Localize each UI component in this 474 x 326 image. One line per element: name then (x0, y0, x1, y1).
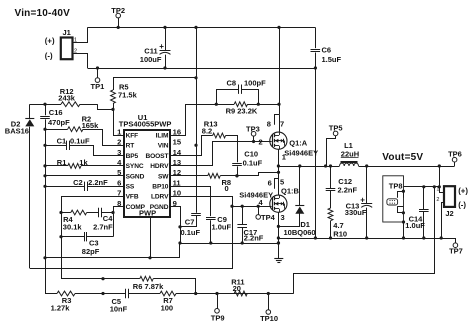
testpoint TP4 (256, 215, 261, 220)
wire SGND to pin5 (45, 175, 124, 177)
svg-text:15: 15 (173, 138, 182, 147)
svg-text:22uH: 22uH (341, 149, 359, 158)
svg-text:71.5k: 71.5k (118, 91, 138, 100)
svg-text:VFB: VFB (126, 194, 139, 201)
svg-text:8.2: 8.2 (202, 126, 212, 135)
wire Q1A drain pins 7 8 (275, 115, 280, 125)
svg-text:100uF: 100uF (140, 55, 162, 64)
wire TP8 to GND (403, 222, 405, 238)
svg-text:20: 20 (233, 284, 241, 293)
diode D1 10BQ060 (299, 166, 301, 206)
resistor R2 (45, 129, 68, 131)
capacitor C9 (170, 187, 211, 217)
wire ILIM riser (170, 105, 216, 136)
svg-text:COMP: COMP (126, 204, 146, 211)
svg-text:TP8: TP8 (389, 181, 403, 190)
testpoint TP1 (95, 78, 100, 83)
svg-text:J2: J2 (445, 209, 453, 218)
svg-text:TP3: TP3 (246, 124, 260, 133)
svg-text:TP1: TP1 (91, 82, 105, 91)
wire Q1B source (278, 212, 280, 258)
svg-text:1.0uF: 1.0uF (405, 221, 425, 230)
svg-text:2.2nF: 2.2nF (338, 186, 358, 195)
svg-text:+: + (159, 42, 164, 51)
resistor R13 (213, 133, 226, 138)
svg-text:SS: SS (126, 184, 135, 191)
wire HDRV to gate (170, 142, 272, 166)
testpoint TP7 (453, 243, 458, 248)
wire J1 pin2 to GND rail (73, 54, 88, 69)
wire VIN to R5 (114, 78, 197, 91)
capacitor C5 (103, 293, 126, 295)
wire SW to L1 (278, 166, 339, 168)
svg-text:(+): (+) (458, 186, 468, 195)
svg-text:100pF: 100pF (244, 79, 266, 88)
testpoint TP8 gnd hook (398, 206, 404, 212)
svg-text:8: 8 (267, 119, 271, 128)
wire input GND to output GND (315, 68, 317, 238)
testpoint TP9 (215, 309, 220, 314)
svg-text:ILIM: ILIM (156, 133, 169, 140)
svg-text:R9 23.2K: R9 23.2K (226, 107, 258, 116)
svg-text:SW: SW (158, 173, 169, 180)
svg-text:C16: C16 (49, 108, 63, 117)
svg-text:Q1:B: Q1:B (281, 187, 300, 196)
svg-text:10BQ060: 10BQ060 (284, 228, 316, 237)
wire KFF stub (113, 135, 124, 137)
wire input GND rail (88, 68, 316, 70)
svg-text:C7: C7 (185, 218, 195, 227)
svg-text:TP5: TP5 (329, 124, 343, 133)
svg-text:SGND: SGND (126, 173, 145, 180)
svg-text:C8: C8 (227, 78, 237, 87)
svg-text:82pF: 82pF (82, 247, 100, 256)
svg-text:0: 0 (225, 184, 229, 193)
wire output GND rail (278, 238, 455, 240)
svg-text:1.27k: 1.27k (51, 304, 71, 313)
resistor R3 (45, 293, 57, 295)
svg-text:0.1uF: 0.1uF (70, 137, 90, 146)
svg-text:Si4946EY: Si4946EY (284, 148, 318, 157)
svg-text:TPS40055PWP: TPS40055PWP (119, 120, 172, 129)
svg-text:3: 3 (117, 148, 121, 157)
diode D2 BAS16 (29, 104, 31, 118)
wire D2 anode to LDRV net (30, 206, 233, 268)
svg-text:(+): (+) (45, 36, 55, 45)
resistor R11 (234, 291, 247, 296)
svg-text:7: 7 (280, 119, 284, 128)
svg-text:1k: 1k (79, 158, 88, 167)
svg-text:PGND: PGND (150, 204, 169, 211)
svg-text:(-): (-) (45, 51, 53, 60)
svg-text:TP10: TP10 (260, 314, 278, 323)
svg-text:HDRV: HDRV (150, 163, 169, 170)
testpoint TP5 (333, 131, 338, 136)
resistor R8 (170, 175, 208, 177)
svg-text:TP9: TP9 (211, 314, 225, 323)
svg-text:243k: 243k (58, 94, 76, 103)
svg-text:BOOST: BOOST (145, 153, 168, 160)
wire Q1A drain riser (279, 27, 281, 114)
resistor R9 (216, 104, 234, 106)
wire BOOST jog (170, 136, 213, 156)
capacitor C3 (61, 236, 84, 238)
testpoint TP8 box (383, 176, 404, 222)
ground symbol (274, 258, 283, 260)
svg-text:Vin=10-40V: Vin=10-40V (15, 8, 71, 19)
svg-text:R1: R1 (57, 158, 67, 167)
svg-text:C10: C10 (244, 149, 258, 158)
svg-text:BP10: BP10 (152, 184, 169, 191)
resistor R10 (328, 208, 333, 221)
svg-text:TP7: TP7 (449, 246, 463, 255)
svg-text:J1: J1 (63, 28, 71, 37)
capacitor C11 (165, 27, 167, 50)
svg-text:C1: C1 (57, 136, 67, 145)
svg-text:165k: 165k (82, 121, 100, 130)
wire PWP pad (150, 217, 152, 258)
inductor L1 (340, 163, 345, 166)
svg-text:C2: C2 (73, 178, 83, 187)
svg-text:Si4946EY: Si4946EY (239, 191, 273, 200)
wire J1 pin1 to VIN rail (73, 27, 88, 42)
testpoint TP3 (251, 132, 256, 137)
svg-text:RT: RT (126, 143, 135, 150)
testpoint TP6 (452, 157, 457, 162)
svg-text:R10: R10 (333, 229, 347, 238)
capacitor C8 (217, 90, 239, 105)
resistor R5 (111, 90, 116, 103)
wire VFB row (61, 196, 124, 198)
svg-text:470pF: 470pF (48, 118, 70, 127)
svg-text:C6: C6 (322, 45, 332, 54)
testpoint TP10 (266, 310, 271, 315)
svg-text:R6 7.87k: R6 7.87k (133, 282, 164, 291)
svg-text:330uF: 330uF (345, 208, 367, 217)
connector J2 (444, 186, 455, 207)
svg-text:2.2nF: 2.2nF (244, 234, 264, 243)
wire Vout sense (294, 187, 435, 294)
capacitor C13 (366, 166, 368, 203)
svg-text:SYNC: SYNC (126, 163, 144, 170)
wire PGND stub (170, 207, 181, 244)
svg-text:6: 6 (117, 178, 121, 187)
wire J2 pin2 (442, 203, 445, 239)
resistor R6 (61, 278, 103, 280)
wire Vout rail (359, 166, 455, 168)
resistor R7 (160, 291, 176, 296)
capacitor C1 (45, 145, 67, 147)
transistor Q1:A (270, 132, 287, 149)
testpoint TP8 signal hook (398, 192, 404, 198)
svg-text:BAS16: BAS16 (5, 127, 29, 136)
node bus junctions (43, 128, 46, 131)
svg-text:0.1uF: 0.1uF (243, 158, 263, 167)
svg-text:3: 3 (281, 213, 285, 222)
wire R5 to KFF (113, 103, 115, 135)
svg-text:Q1:A: Q1:A (289, 139, 308, 148)
svg-text:2: 2 (259, 138, 263, 147)
capacitor C14 (423, 187, 425, 209)
wire J2 pin1 (440, 166, 445, 193)
capacitor C4 (98, 208, 100, 217)
resistor R1 (45, 165, 68, 167)
wire LDRV to gate (170, 197, 233, 207)
wire Q1B drain pins 6 5 (275, 179, 279, 189)
svg-text:2.7nF: 2.7nF (93, 222, 113, 231)
svg-text:VIN: VIN (158, 143, 169, 150)
wire SGND row (45, 257, 180, 259)
wire Vout branch (404, 186, 440, 188)
wire R12 to KFF node (98, 104, 114, 109)
testpoint TP8 plug (387, 199, 398, 205)
wire top VIN rail (88, 27, 316, 29)
svg-text:2: 2 (436, 197, 439, 203)
svg-text:(-): (-) (458, 201, 466, 210)
wire Q1A drain lead (279, 115, 281, 132)
wire VIN riser (196, 27, 198, 212)
svg-text:1.0uF: 1.0uF (212, 222, 232, 231)
svg-text:LDRV: LDRV (151, 194, 169, 201)
op-amp U1 TPS40055PWP box (124, 130, 170, 217)
svg-text:TP2: TP2 (111, 6, 125, 15)
svg-text:10nF: 10nF (110, 304, 128, 313)
capacitor C6 (315, 27, 317, 48)
svg-text:1.5uF: 1.5uF (322, 55, 342, 64)
svg-text:2: 2 (117, 138, 121, 147)
svg-text:Vout=5V: Vout=5V (382, 152, 423, 163)
svg-text:100: 100 (161, 304, 174, 313)
wire left GND rail (180, 243, 279, 245)
svg-text:1: 1 (282, 153, 286, 162)
capacitor C16 (45, 104, 47, 115)
svg-text:+: + (360, 196, 365, 205)
wire VFB riser (61, 196, 63, 279)
capacitor C17 (242, 206, 244, 225)
wire SW node vertical (278, 149, 280, 195)
svg-text:TP4: TP4 (261, 213, 276, 222)
capacitor C10 (232, 163, 242, 165)
connector J1 (61, 38, 73, 60)
svg-text:BP5: BP5 (126, 153, 139, 160)
wire COMP riser (114, 207, 125, 237)
svg-text:2.2nF: 2.2nF (88, 178, 108, 187)
transistor Q1:B (270, 195, 287, 212)
svg-text:6: 6 (268, 179, 272, 188)
capacitor C12 (330, 166, 332, 188)
svg-text:0.1uF: 0.1uF (181, 228, 201, 237)
svg-text:TP6: TP6 (448, 150, 462, 159)
svg-text:30.1k: 30.1k (63, 222, 83, 231)
capacitor C7 (191, 213, 201, 215)
resistor R4 (61, 212, 71, 214)
testpoint TP2 (116, 13, 121, 18)
svg-text:5: 5 (280, 178, 284, 187)
resistor R12 (30, 104, 61, 106)
svg-text:KFF: KFF (126, 133, 139, 140)
capacitor C2 (45, 186, 84, 188)
